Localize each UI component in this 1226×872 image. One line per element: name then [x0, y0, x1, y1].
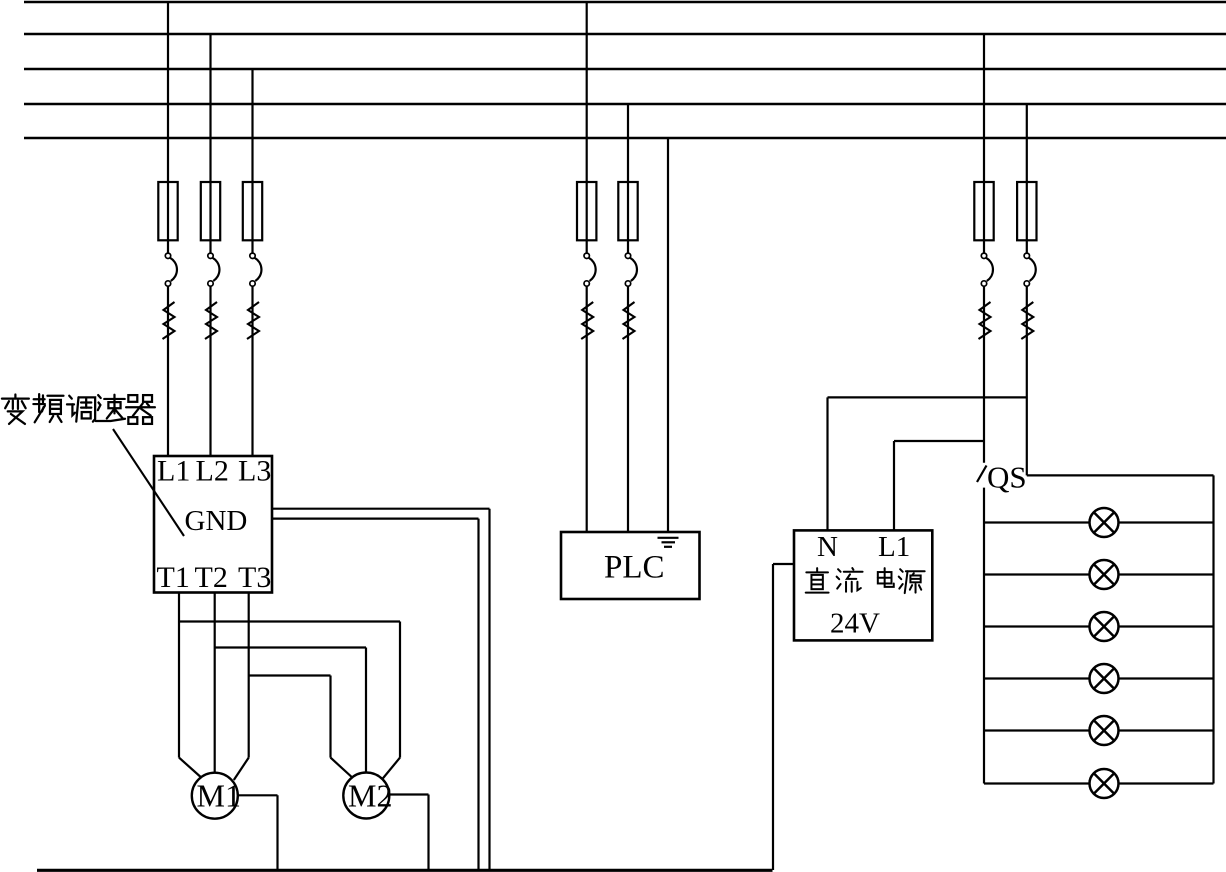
PLC box: [561, 532, 700, 599]
wire: lamp rung 3 right: [1119, 625, 1214, 627]
svg-text:L1: L1: [878, 531, 910, 563]
breaker contact QF2 bottom terminal: [208, 281, 213, 286]
motor M2: [343, 773, 389, 819]
DC supply label: 直流电源 (DC power source): [806, 568, 925, 593]
svg-text:GND: GND: [185, 505, 248, 537]
svg-text:T2: T2: [195, 561, 228, 594]
wire: bus PE down to PLC earth: [667, 138, 669, 538]
wire: T2 branch horizontal to M2 centre: [215, 646, 366, 648]
wire: bus L2 down to breaker, lamp phase: [983, 34, 985, 253]
breaker contact QF2 top terminal: [208, 253, 213, 258]
lamp EL2: [1090, 560, 1119, 589]
svg-text:M1: M1: [197, 778, 241, 814]
motor M1: [192, 773, 238, 819]
wire: DC supply L1 drop: [893, 441, 895, 530]
lamp EL4: [1090, 664, 1119, 693]
wire: T1 branch horizontal to M2 right: [179, 620, 400, 622]
wire: breaker to PLC: [586, 286, 588, 532]
wire: inverter GND out (outer): [272, 508, 490, 510]
svg-text:L3: L3: [238, 455, 271, 488]
breaker contact QF3 bottom terminal: [250, 281, 255, 286]
wire: breaker to PLC neutral: [627, 286, 629, 532]
wire: lamp panel top feed: [1027, 474, 1214, 476]
wire: M2 earth drop: [427, 795, 429, 871]
wire: bus N down to breaker, lamp neutral: [1026, 104, 1028, 253]
fuse FU7: [1017, 182, 1036, 240]
svg-text:24V: 24V: [830, 608, 880, 640]
fuse FU1: [158, 182, 177, 240]
wire: lamp rung 5 right: [1119, 729, 1214, 731]
wire: T3 branch horizontal to M2 left: [249, 674, 331, 676]
wire: inverter GND out (inner): [272, 517, 479, 519]
wire: DC supply L1 tap horizontal: [894, 440, 984, 442]
DC power supply box: [794, 530, 932, 640]
fuse FU6: [974, 182, 993, 240]
wire: DC supply N tap horizontal: [828, 396, 1027, 398]
wire: slant into M1 right: [234, 758, 249, 780]
earth symbol inside PLC: [658, 538, 679, 547]
thermal overload heater FR2: [205, 302, 217, 339]
wire: lamp rung 4 right: [1119, 677, 1214, 679]
wire: DC supply earth out: [773, 563, 794, 565]
wire: bus L1 down to breaker, PLC phase: [586, 2, 588, 253]
breaker contact QF5 arc: [630, 258, 637, 281]
wire: breaker 2 to inverter input L2: [209, 286, 211, 456]
breaker contact QF3 arc: [255, 258, 262, 281]
breaker contact QF4 top terminal: [584, 253, 589, 258]
wire: M1 frame to earth rail: [238, 794, 278, 796]
breaker contact QF7 arc: [1029, 258, 1036, 281]
wire: branch down at x=330: [329, 676, 331, 758]
wire: slant into M1 left: [179, 758, 204, 780]
svg-text:PLC: PLC: [604, 550, 665, 586]
wire: GND outer down: [488, 509, 490, 870]
svg-text:L2: L2: [196, 455, 229, 488]
svg-text:T3: T3: [238, 561, 271, 594]
lamp EL1: [1090, 508, 1119, 537]
wire: lamp rung 1 right: [1119, 521, 1214, 523]
wire: bus L3 down to breaker, phase 3: [251, 69, 253, 253]
wire: lamp rung 3 left: [984, 625, 1090, 627]
fuse FU3: [243, 182, 262, 240]
wire: branch down to motor M2: [365, 648, 367, 773]
thermal overload heater FR3: [247, 302, 259, 339]
thermal overload heater FR4: [581, 302, 593, 339]
wire: bus N down to breaker, PLC neutral: [627, 104, 629, 253]
wire: DC supply earth drop: [772, 564, 774, 870]
svg-text:QS: QS: [987, 460, 1027, 495]
wire: bus L2 down to breaker, phase 2: [209, 34, 211, 253]
lamp EL3: [1090, 612, 1119, 641]
bus L1: [24, 1, 1226, 4]
lamp EL5: [1090, 716, 1119, 745]
wire: lamp rung 5 left: [984, 729, 1090, 731]
breaker contact QF1 arc: [170, 258, 177, 281]
bus L3: [24, 68, 1226, 71]
wire: lamp panel left rail: [983, 488, 985, 784]
breaker contact QF7 bottom terminal: [1024, 281, 1029, 286]
wire: lamp rung 1 left: [984, 521, 1090, 523]
wire: breaker 1 to inverter input L1: [167, 286, 169, 456]
wire: lamp rung 2 right: [1119, 573, 1214, 575]
wire: slant into M2 right: [382, 758, 401, 780]
wire: M2 frame to earth rail: [389, 793, 428, 795]
svg-text:L1: L1: [157, 455, 190, 488]
wire: slant into M2 left: [331, 758, 356, 780]
wire: branch down at x=400: [399, 622, 401, 758]
switch QS blade: [977, 466, 987, 483]
wire: breaker 3 to inverter input L3: [251, 286, 253, 456]
thermal overload heater FR1: [163, 302, 175, 339]
wire: T2 down to motor M1: [214, 593, 216, 773]
breaker contact QF4 arc: [589, 258, 596, 281]
wire: breaker down to switch QS: [983, 286, 985, 463]
wire: T1 down: [178, 593, 180, 758]
breaker contact QF7 top terminal: [1024, 253, 1029, 258]
wire: T3 down: [248, 593, 250, 758]
breaker contact QF1 top terminal: [165, 253, 170, 258]
breaker contact QF6 arc: [986, 258, 993, 281]
wire: breaker down to lamp panel right rail: [1026, 286, 1028, 475]
wire: lamp rung 4 left: [984, 677, 1090, 679]
fuse FU2: [201, 182, 220, 240]
svg-text:N: N: [817, 531, 838, 563]
thermal overload heater FR5: [623, 302, 635, 339]
bus L2: [24, 33, 1226, 36]
fuse FU5: [618, 182, 637, 240]
lamp EL6: [1090, 769, 1119, 798]
breaker contact QF6 top terminal: [981, 253, 986, 258]
thermal overload heater FR7: [1021, 302, 1033, 339]
wire: bus L1 down to breaker, phase 1: [167, 2, 169, 253]
inverter (frequency speed controller) box: [154, 456, 272, 593]
label text: 变频调速器 (frequency speed controller): [2, 394, 155, 424]
leader line from label to inverter: [113, 429, 184, 536]
svg-text:T1: T1: [157, 561, 190, 594]
breaker contact QF3 top terminal: [250, 253, 255, 258]
breaker contact QF5 bottom terminal: [625, 281, 630, 286]
wire: lamp panel right rail: [1212, 475, 1214, 783]
breaker contact QF1 bottom terminal: [165, 281, 170, 286]
breaker contact QF4 bottom terminal: [584, 281, 589, 286]
wire: lamp rung 6 right: [1119, 782, 1214, 784]
bus PE: [24, 137, 1226, 140]
fuse FU4: [577, 182, 596, 240]
thermal overload heater FR6: [979, 302, 991, 339]
wire: DC supply N drop: [826, 397, 828, 530]
wire: GND inner down: [477, 519, 479, 870]
earth rail (bottom): [37, 869, 773, 872]
bus N: [24, 103, 1226, 106]
svg-text:M2: M2: [348, 778, 392, 814]
breaker contact QF5 top terminal: [625, 253, 630, 258]
breaker contact QF6 bottom terminal: [981, 281, 986, 286]
wire: lamp rung 6 left: [984, 782, 1090, 784]
breaker contact QF2 arc: [213, 258, 220, 281]
wire: M1 earth drop: [276, 795, 278, 870]
wire: lamp rung 2 left: [984, 573, 1090, 575]
